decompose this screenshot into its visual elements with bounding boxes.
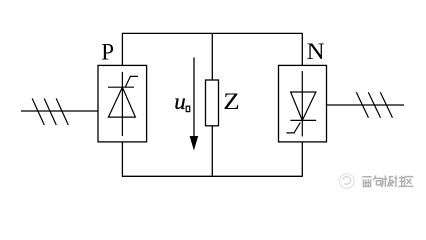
watermark text [362,175,413,187]
wire left AC line [21,110,98,112]
thyristor VP [108,72,138,136]
wire N top lead [301,33,303,65]
three-phase marks right [356,92,392,117]
watermark logo [339,174,354,189]
wire P bottom lead [121,142,123,176]
thyristor VN [286,71,316,137]
wire top bus [122,32,303,34]
wire bottom bus [122,175,303,177]
char qu [405,177,414,187]
char she [393,175,405,187]
svg-text:Z: Z [223,89,240,114]
label uo [174,89,189,114]
svg-text:N: N [307,39,325,64]
arrow uo [190,58,199,151]
thyristor group P box [98,65,147,141]
svg-text:P: P [101,40,114,65]
load Z [206,80,219,126]
wire Z top lead [211,33,213,80]
char ban [382,175,393,187]
svg-text:u: u [174,89,186,114]
char mian [362,177,371,187]
wire N bottom lead [301,142,303,176]
three-phase marks left [32,99,68,126]
thyristor group N box [279,65,327,141]
wire P top lead [121,33,123,65]
wire Z bottom lead [211,126,213,177]
char bao [373,175,383,186]
wire right AC line [327,104,405,106]
